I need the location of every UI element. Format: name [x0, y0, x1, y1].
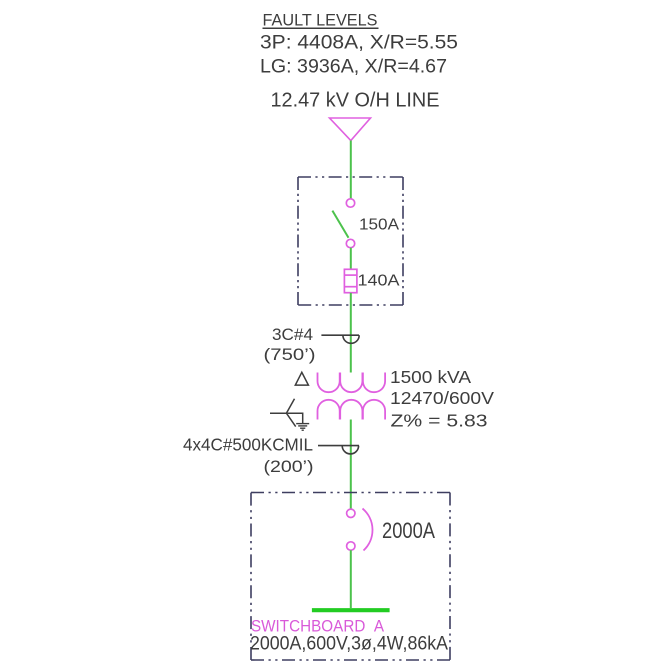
wire: switch to fuse: [350, 248, 352, 270]
delta symbol (primary winding connection): [295, 372, 308, 385]
wye neutral to ground wire: [288, 413, 303, 423]
wye symbol lower-right leg: [286, 413, 295, 426]
svg-text:140A: 140A: [358, 273, 400, 290]
switch S1 bottom contact: [346, 239, 354, 247]
fuse F1 element lines: [344, 274, 357, 276]
wire: breaker to bus: [350, 550, 352, 608]
breaker CB1 top contact: [347, 509, 355, 517]
transformer T1 secondary winding: [318, 400, 386, 420]
label underline: FAULT LEVELS: [263, 27, 379, 29]
transformer T1 primary winding: [318, 373, 386, 393]
cable marker 1 leader line: [321, 334, 359, 336]
wye symbol left leg: [270, 412, 288, 414]
svg-text:3P: 4408A, X/R=5.55: 3P: 4408A, X/R=5.55: [260, 33, 458, 54]
svg-text:(750’): (750’): [264, 346, 316, 364]
wire: fuse to transformer primary: [350, 293, 352, 373]
svg-text:Z% = 5.83: Z% = 5.83: [391, 411, 488, 431]
enclosure box 1 (dash-dot): [298, 177, 403, 305]
svg-text:LG: 3936A, X/R=4.67: LG: 3936A, X/R=4.67: [260, 57, 447, 78]
switch S1 top contact: [346, 199, 354, 207]
svg-text:4x4C#500KCMIL: 4x4C#500KCMIL: [183, 435, 313, 455]
svg-text:FAULT LEVELS: FAULT LEVELS: [263, 11, 378, 30]
svg-text:(200’): (200’): [264, 457, 314, 476]
fuse F1 body: [344, 269, 357, 292]
ground symbol: [296, 424, 309, 431]
svg-text:12.47 kV O/H LINE: 12.47 kV O/H LINE: [271, 90, 440, 112]
wire: transformer secondary to switchboard: [350, 420, 352, 510]
cable marker 2 half-circle: [342, 446, 358, 454]
cable marker 2 leader line: [318, 445, 359, 447]
switch S1 blade: [332, 211, 348, 238]
svg-text:2000A: 2000A: [382, 518, 435, 543]
wye symbol upper-right leg: [286, 399, 294, 414]
switchboard bus bar: [312, 608, 390, 612]
cable marker 1 half-circle: [343, 335, 359, 343]
breaker CB1 arc: [363, 509, 373, 551]
svg-text:12470/600V: 12470/600V: [390, 388, 494, 408]
utility source arrow (triangle): [330, 118, 371, 141]
svg-text:2000A,600V,3ø,4W,86kA: 2000A,600V,3ø,4W,86kA: [250, 634, 448, 655]
svg-text:3C#4: 3C#4: [272, 326, 313, 344]
enclosure box 2 (dash-dot): [251, 493, 450, 661]
breaker CB1 bottom contact: [347, 542, 355, 550]
svg-text:150A: 150A: [359, 217, 399, 234]
wire: source to switch: [350, 141, 352, 200]
svg-text:1500 kVA: 1500 kVA: [390, 367, 471, 387]
